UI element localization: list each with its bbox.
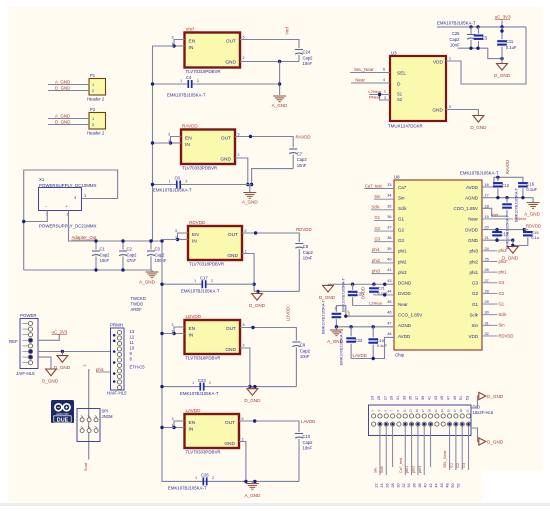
capacitor C24 xyxy=(295,50,303,55)
capacitor C13 xyxy=(496,229,498,231)
svg-text:Sin: Sin xyxy=(471,323,478,328)
DIO inner marks xyxy=(371,409,470,412)
svg-text:52: 52 xyxy=(456,483,460,487)
wire: DIO col 15 G2 xyxy=(461,424,463,470)
capacitor C19 xyxy=(372,327,374,337)
svg-text:G1: G1 xyxy=(499,301,505,306)
svg-text:Vref: Vref xyxy=(491,212,499,217)
svg-text:40: 40 xyxy=(387,257,391,261)
wire: SPI vertical net xyxy=(88,369,90,460)
svg-text:1: 1 xyxy=(169,179,171,183)
wire: U3 SEL / SeL_Near xyxy=(350,72,390,74)
svg-text:AGND: AGND xyxy=(398,323,412,328)
svg-text:Cap2: Cap2 xyxy=(303,55,314,60)
svg-text:C10: C10 xyxy=(303,434,311,439)
svg-text:Cap2: Cap2 xyxy=(300,348,311,353)
svg-text:49: 49 xyxy=(453,396,457,400)
svg-text:1: 1 xyxy=(172,42,174,46)
svg-text:S1: S1 xyxy=(397,92,403,97)
svg-text:SeL_Near: SeL_Near xyxy=(354,67,374,72)
svg-text:31: 31 xyxy=(466,409,470,412)
svg-text:26: 26 xyxy=(385,483,389,487)
svg-text:Near: Near xyxy=(398,302,408,307)
svg-text:10nF: 10nF xyxy=(297,163,307,168)
wire: reg2 GND down xyxy=(235,158,248,185)
svg-text:39: 39 xyxy=(421,396,425,400)
wire: X1 pin3 loop xyxy=(24,170,118,270)
svg-text:51: 51 xyxy=(459,396,463,400)
svg-text:POWERSUPPLY_DC10MMX: POWERSUPPLY_DC10MMX xyxy=(39,183,97,188)
svg-text:EMK107BJ105KA-T: EMK107BJ105KA-T xyxy=(460,170,499,175)
svg-text:Cap2: Cap2 xyxy=(297,157,308,162)
svg-text:Sin: Sin xyxy=(398,195,405,200)
svg-text:TLV70318PDBVR: TLV70318PDBVR xyxy=(189,262,224,267)
svg-text:EN: EN xyxy=(185,136,192,142)
svg-text:1: 1 xyxy=(194,279,196,283)
svg-text:GND: GND xyxy=(220,157,231,163)
wire: DIO col 16 G3 xyxy=(468,424,470,470)
wire: U8 pin 35 Sclk xyxy=(371,209,394,211)
svg-text:2: 2 xyxy=(238,153,240,157)
wire: U8 pin 24 phi3 xyxy=(482,250,498,252)
wire: C7 return xyxy=(252,169,294,185)
svg-text:C12: C12 xyxy=(501,183,509,188)
svg-text:A_GND: A_GND xyxy=(272,103,289,108)
svg-text:RDVDD: RDVDD xyxy=(296,227,312,232)
svg-text:41: 41 xyxy=(387,268,391,272)
svg-text:G3: G3 xyxy=(375,237,381,242)
IC U8 "Chip" xyxy=(394,175,482,358)
svg-text:2: 2 xyxy=(449,57,451,61)
svg-text:Cap2: Cap2 xyxy=(127,252,138,257)
svg-text:29: 29 xyxy=(485,300,489,304)
svg-text:38: 38 xyxy=(418,483,422,487)
svg-text:LDVDD: LDVDD xyxy=(286,307,291,321)
svg-text:D_GND: D_GND xyxy=(55,85,70,90)
wire: C6 line xyxy=(153,184,177,186)
wire: P2 pin2 D_GND xyxy=(48,124,89,126)
svg-text:Sin: Sin xyxy=(374,468,378,474)
svg-text:C6: C6 xyxy=(175,176,181,181)
svg-text:5: 5 xyxy=(242,417,244,421)
svg-text:29: 29 xyxy=(459,409,463,412)
wire: reg2 OUT net RAVDD xyxy=(235,137,293,148)
svg-text:30: 30 xyxy=(485,311,489,315)
svg-text:3: 3 xyxy=(172,323,174,327)
wire: U8 COO_1.85V pin18 / Vref xyxy=(482,208,507,216)
svg-text:25: 25 xyxy=(377,396,381,400)
svg-text:U3: U3 xyxy=(391,51,397,56)
svg-text:G1: G1 xyxy=(375,215,381,220)
svg-text:1: 1 xyxy=(192,381,194,385)
svg-text:RDVDD: RDVDD xyxy=(499,333,514,338)
svg-text:47nF: 47nF xyxy=(127,258,137,263)
wire: P2 pin1 A_GND xyxy=(48,118,89,120)
svg-text:TLV70333PDBVR: TLV70333PDBVR xyxy=(186,450,221,455)
svg-text:10nF: 10nF xyxy=(450,43,460,48)
wire: U3 VDD loop to uC_3V3 xyxy=(446,27,526,84)
svg-text:POWERSUPPLY_DC21MMX: POWERSUPPLY_DC21MMX xyxy=(39,224,97,229)
svg-text:phi3: phi3 xyxy=(418,466,422,473)
svg-text:23: 23 xyxy=(440,409,444,412)
wire: U3 GND to D_GND xyxy=(446,110,478,116)
svg-text:1: 1 xyxy=(175,235,177,239)
svg-text:C1: C1 xyxy=(100,247,106,252)
svg-text:AVDD: AVDD xyxy=(398,334,411,339)
svg-text:OUT: OUT xyxy=(226,39,236,45)
svg-text:phi2: phi2 xyxy=(398,259,407,264)
ground A_GND (reg2) xyxy=(249,185,251,193)
svg-text:Header 2: Header 2 xyxy=(87,97,105,102)
wire: U8 pin 40 phi2 xyxy=(372,262,395,264)
svg-text:18: 18 xyxy=(485,204,489,208)
capacitor C5 xyxy=(478,27,480,34)
svg-text:10: 10 xyxy=(130,346,135,351)
ground D_GND (DIO bottom) xyxy=(479,438,486,445)
capacitor C26 EMK107BJ105KA-T xyxy=(203,477,206,485)
svg-text:Ca7_test: Ca7_test xyxy=(365,183,383,188)
svg-text:GND: GND xyxy=(227,253,238,259)
svg-text:34: 34 xyxy=(387,194,391,198)
svg-text:DVDD: DVDD xyxy=(361,287,366,299)
wire: phi1 to PRMH xyxy=(96,371,111,373)
ground D_GND (chip DGND) xyxy=(327,284,329,285)
svg-text:OUT: OUT xyxy=(221,136,231,142)
svg-text:3: 3 xyxy=(168,132,170,136)
svg-text:uC_3V3: uC_3V3 xyxy=(495,15,511,20)
svg-text:COO_1.85V: COO_1.85V xyxy=(453,206,478,211)
wire: supply bus B vertical xyxy=(162,240,246,482)
svg-text:37: 37 xyxy=(387,226,391,230)
svg-text:39: 39 xyxy=(387,247,391,251)
svg-text:1uF: 1uF xyxy=(347,310,351,317)
svg-text:C4: C4 xyxy=(186,75,192,80)
svg-text:38: 38 xyxy=(387,236,391,240)
svg-text:17: 17 xyxy=(421,409,425,412)
wire: U8 pin 37 G2 xyxy=(374,230,394,232)
svg-text:0.1u: 0.1u xyxy=(531,235,539,240)
svg-text:27: 27 xyxy=(383,396,387,400)
svg-text:GND: GND xyxy=(432,108,443,114)
svg-text:D_GND: D_GND xyxy=(55,119,70,124)
wire: U8 AVDD pin16 to RAVDD rail xyxy=(482,177,523,187)
capacitor C23 EMK107BJ105KA-T xyxy=(200,383,203,391)
svg-text:31: 31 xyxy=(396,396,400,400)
svg-text:40: 40 xyxy=(424,483,428,487)
svg-text:IN: IN xyxy=(192,239,197,245)
wire: U8 pin 32 RDVDD xyxy=(482,335,498,337)
svg-text:36: 36 xyxy=(387,215,391,219)
svg-text:Cap2: Cap2 xyxy=(303,440,314,445)
svg-text:2: 2 xyxy=(92,89,94,93)
wire: U8 DGND pin43 line xyxy=(328,283,394,285)
wire: U8 AGND pin47 line xyxy=(336,326,394,328)
svg-text:G3: G3 xyxy=(472,281,479,286)
svg-text:Sclk: Sclk xyxy=(499,312,508,317)
wire: U8 DVDD pin20 / RDVDD xyxy=(482,229,524,231)
svg-text:48: 48 xyxy=(445,483,449,487)
wire: U8 pin 41 phi3 xyxy=(372,273,395,275)
ground D_GND (uC_3V3) xyxy=(501,59,503,64)
wire: reg3 GND down xyxy=(242,254,254,292)
wire: C17 line xyxy=(162,283,202,285)
svg-text:HAIF-HL5: HAIF-HL5 xyxy=(107,391,127,396)
connector DIO 18x2F-HL5 xyxy=(369,405,494,436)
svg-text:1: 1 xyxy=(168,139,170,143)
svg-text:36: 36 xyxy=(413,483,417,487)
svg-text:phi2: phi2 xyxy=(372,258,381,263)
svg-text:1: 1 xyxy=(172,423,174,427)
svg-text:uC_3V3: uC_3V3 xyxy=(52,330,68,335)
svg-text:G2: G2 xyxy=(456,463,460,468)
svg-text:ETH-C5: ETH-C5 xyxy=(130,365,146,370)
svg-text:27: 27 xyxy=(453,409,457,412)
svg-text:EMK107BJ105KA-T: EMK107BJ105KA-T xyxy=(506,214,510,249)
svg-text:2: 2 xyxy=(92,123,94,127)
svg-text:4: 4 xyxy=(383,78,385,82)
svg-text:26: 26 xyxy=(485,268,489,272)
wire: U8 pin45 Near / L2Near xyxy=(369,305,394,307)
wire: C10 return xyxy=(246,480,299,482)
svg-text:0.1uF: 0.1uF xyxy=(526,187,537,192)
svg-text:11: 11 xyxy=(402,409,406,412)
svg-text:GND: GND xyxy=(225,347,236,353)
svg-text:AREF: AREF xyxy=(131,307,143,312)
svg-text:47: 47 xyxy=(447,396,451,400)
svg-text:RNear: RNear xyxy=(515,216,527,221)
wire: DIO col 6 Ca7_test xyxy=(404,424,406,475)
capacitor C10 xyxy=(295,434,303,439)
capacitor C3 xyxy=(150,241,152,250)
svg-text:12: 12 xyxy=(130,335,135,340)
wire: DIO to D_GND top xyxy=(471,396,479,408)
wire: U8 pin 36 G1 xyxy=(374,219,394,221)
wire: C9 return xyxy=(250,386,297,388)
wire: C25/C5 bottom line xyxy=(458,48,503,58)
svg-text:33: 33 xyxy=(387,183,391,187)
svg-text:1: 1 xyxy=(92,83,94,87)
svg-text:D_GND: D_GND xyxy=(249,303,266,308)
svg-text:10nF: 10nF xyxy=(303,446,313,451)
wire: U8 pin 26 phi1 xyxy=(482,271,498,273)
wire: POWER to PRMH xyxy=(38,351,111,353)
svg-text:1: 1 xyxy=(195,476,197,480)
connector SPI JN2M xyxy=(77,409,113,442)
header P2 (Header 2) xyxy=(87,107,106,136)
capacitor C18 (COO to AGND) xyxy=(506,198,508,203)
svg-text:POWER: POWER xyxy=(20,313,37,318)
wire: uC_3V3 from POWER xyxy=(38,335,59,341)
voltage regulator U? LAVDD TLV70333PDBVR xyxy=(172,408,244,454)
wire: P1 pin1 A_GND xyxy=(48,84,89,86)
capacitor C22 xyxy=(350,327,352,336)
svg-text:2: 2 xyxy=(243,344,245,348)
svg-text:C7: C7 xyxy=(297,151,303,156)
wire: DIO col 2 Sin xyxy=(379,424,381,475)
svg-text:D_GND: D_GND xyxy=(42,378,59,383)
svg-text:1: 1 xyxy=(92,117,94,121)
svg-text:15: 15 xyxy=(415,409,419,412)
header P1 (Header 2) xyxy=(87,73,106,102)
connector POWER JAIF-HL5 xyxy=(16,313,38,376)
wire: U3 D / Near xyxy=(351,82,390,84)
svg-text:Sin: Sin xyxy=(374,194,381,199)
Arduino DUE logo xyxy=(51,400,74,423)
svg-text:Sin: Sin xyxy=(499,323,506,328)
svg-text:1: 1 xyxy=(384,90,386,94)
svg-text:31: 31 xyxy=(485,321,489,325)
svg-text:L2Near: L2Near xyxy=(368,89,382,94)
svg-text:Header 2: Header 2 xyxy=(87,131,105,136)
svg-text:phi1: phi1 xyxy=(405,466,409,473)
svg-text:C16: C16 xyxy=(526,181,534,186)
capacitor C12 xyxy=(497,177,499,181)
wire: DIO col 7 phi1 xyxy=(411,424,413,475)
svg-text:3: 3 xyxy=(84,194,86,198)
op-amp/mux U3 TMUX1247DCKR xyxy=(388,51,446,129)
svg-text:DGND: DGND xyxy=(398,281,412,286)
svg-text:EMK107BJ105KA-T: EMK107BJ105KA-T xyxy=(322,299,326,334)
svg-text:A_GND: A_GND xyxy=(524,212,541,217)
wire: U8 CCO_1.85V pin46 to C14 xyxy=(336,306,394,317)
svg-text:53: 53 xyxy=(466,396,470,400)
svg-text:Chip: Chip xyxy=(395,353,405,358)
svg-text:DVDD: DVDD xyxy=(465,227,479,232)
svg-text:IN: IN xyxy=(189,333,194,339)
svg-text:46: 46 xyxy=(440,483,444,487)
capacitor C7 xyxy=(289,149,297,154)
wire: reg1 OUT net Vref xyxy=(240,40,299,49)
ground A_GND (right) xyxy=(532,198,534,203)
svg-text:AVDD: AVDD xyxy=(466,185,479,190)
svg-text:L2Near: L2Near xyxy=(369,300,383,305)
ground D_GND (reg4) xyxy=(251,387,253,389)
wire: U8 GND pin21 line xyxy=(482,239,513,241)
svg-text:13: 13 xyxy=(409,409,413,412)
svg-text:LAVDD: LAVDD xyxy=(353,353,367,358)
ground D_GND (reg3) xyxy=(256,291,258,293)
svg-text:42: 42 xyxy=(429,483,433,487)
svg-text:3: 3 xyxy=(74,196,76,200)
svg-text:IN: IN xyxy=(189,427,194,433)
svg-text:phi2: phi2 xyxy=(499,259,508,264)
svg-text:Sclk: Sclk xyxy=(398,206,407,211)
svg-text:5: 5 xyxy=(238,132,240,136)
wire: X1 minus pin to left bus xyxy=(24,211,48,222)
svg-text:EMK107BJ105KA-T: EMK107BJ105KA-T xyxy=(167,93,206,98)
wire: U8 pin 34 Sin xyxy=(374,198,394,200)
svg-text:16: 16 xyxy=(485,183,489,187)
svg-text:C11: C11 xyxy=(506,39,514,44)
voltage regulator U? Vref TLV70318PDBVR xyxy=(172,27,245,74)
svg-text:10nF: 10nF xyxy=(303,256,313,261)
wire: reg4 input to bus B xyxy=(162,333,174,335)
capacitor C25 xyxy=(470,27,472,34)
wire: U8 pin 39 phi1 xyxy=(372,251,395,253)
svg-text:24: 24 xyxy=(485,247,489,251)
svg-text:17: 17 xyxy=(485,194,489,198)
svg-text:5: 5 xyxy=(245,229,247,233)
svg-text:C25: C25 xyxy=(452,31,460,36)
svg-text:C2: C2 xyxy=(127,247,133,252)
svg-text:G3: G3 xyxy=(398,238,405,243)
wire: reg5 input to bus B xyxy=(162,427,174,429)
svg-text:43: 43 xyxy=(434,396,438,400)
svg-text:G1: G1 xyxy=(472,302,479,307)
wire: U8 pin 31 Sin xyxy=(482,324,498,326)
svg-text:10nF: 10nF xyxy=(303,61,313,66)
svg-text:VDD: VDD xyxy=(433,60,444,66)
svg-text:21: 21 xyxy=(434,409,438,412)
capacitor C11 xyxy=(501,27,503,39)
svg-text:44: 44 xyxy=(434,483,438,487)
svg-text:41: 41 xyxy=(428,396,432,400)
svg-text:RDVDD: RDVDD xyxy=(526,223,541,228)
svg-text:GND: GND xyxy=(468,238,479,243)
ground A_GND (reg5) xyxy=(251,481,253,483)
svg-text:Ca7_test: Ca7_test xyxy=(399,457,403,473)
capacitor C14 xyxy=(332,314,342,317)
svg-text:5: 5 xyxy=(449,105,451,109)
svg-text:29: 29 xyxy=(390,396,394,400)
svg-text:EMK107BJ105KA-T: EMK107BJ105KA-T xyxy=(342,277,346,312)
wire: DIO col 13 SEL_Near xyxy=(449,424,451,470)
svg-text:phi2: phi2 xyxy=(412,466,416,473)
wire: U8 pin 33 Ca7_test xyxy=(364,188,394,190)
wire: reg2 input to bus A xyxy=(153,142,171,144)
wire: U3 S1,S2 L2Near/RNear xyxy=(369,94,390,96)
svg-text:33: 33 xyxy=(402,396,406,400)
svg-text:EN: EN xyxy=(189,326,196,332)
svg-text:TWDO: TWDO xyxy=(131,301,145,306)
svg-text:X1: X1 xyxy=(39,177,45,182)
svg-text:44: 44 xyxy=(387,289,391,293)
svg-text:C24: C24 xyxy=(303,50,311,55)
svg-text:Near: Near xyxy=(468,217,478,222)
wire: DIO col 14 G1 xyxy=(455,424,457,470)
svg-text:C17: C17 xyxy=(200,275,208,280)
svg-text:phi1: phi1 xyxy=(96,367,105,372)
svg-text:EMK107BJ105KA-T: EMK107BJ105KA-T xyxy=(180,391,219,396)
wire: C4 line xyxy=(153,83,189,85)
svg-text:5: 5 xyxy=(243,35,245,39)
svg-text:43: 43 xyxy=(387,279,391,283)
wire: DIO col 9 phi3 xyxy=(423,424,425,475)
svg-text:30: 30 xyxy=(396,483,400,487)
svg-text:IN: IN xyxy=(185,142,190,148)
svg-text:Vref: Vref xyxy=(285,26,290,34)
ground D_GND (power row) xyxy=(61,352,63,356)
svg-text:EMK107BJ105KA-T: EMK107BJ105KA-T xyxy=(153,188,192,193)
connector PRMH HAIF-HL5 xyxy=(107,323,127,396)
wire: DIO to D_GND bottom xyxy=(471,428,479,442)
svg-text:OUT: OUT xyxy=(228,232,238,238)
svg-text:Sclk: Sclk xyxy=(372,205,381,210)
svg-text:phi3: phi3 xyxy=(398,270,407,275)
svg-text:RDVDD: RDVDD xyxy=(189,220,206,225)
ground A_GND (chip AGND) xyxy=(335,327,337,330)
svg-text:IN: IN xyxy=(189,45,194,51)
svg-text:100nF: 100nF xyxy=(155,258,167,263)
wire: reg4 GND down xyxy=(240,348,250,387)
svg-text:1: 1 xyxy=(172,329,174,333)
svg-text:RAVDD: RAVDD xyxy=(505,160,510,174)
svg-text:phi1: phi1 xyxy=(372,247,381,252)
wire: U8 AGND pin17 line xyxy=(482,197,533,199)
svg-text:2: 2 xyxy=(335,307,337,311)
capacitor C16 xyxy=(518,183,528,186)
svg-text:TLV70318PDBVR: TLV70318PDBVR xyxy=(186,356,221,361)
